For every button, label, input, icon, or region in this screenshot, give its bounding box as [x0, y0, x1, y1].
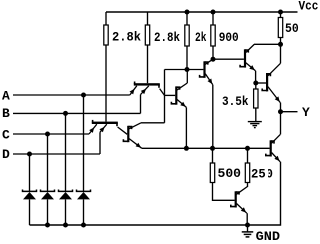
transistor Q2a: [171, 83, 187, 107]
node gnd junction C: [45, 223, 50, 228]
transistor Q3: [240, 44, 255, 70]
resistor R6 500: [210, 163, 214, 183]
svg-text:D: D: [2, 147, 10, 162]
node B junction: [63, 111, 68, 116]
wire Y output: [281, 111, 298, 113]
wire squaring line: [142, 147, 270, 149]
wire ground rail: [30, 224, 248, 226]
ground under 3.5k: [248, 122, 262, 128]
label R4 900: [219, 30, 239, 45]
wire R5 bottom lead: [280, 38, 282, 45]
wire Q5 base lead: [256, 82, 266, 84]
resistor R4 900: [211, 25, 215, 46]
wire B to diode D3: [65, 113, 67, 191]
label R7 250 left-edge clip: [266, 166, 268, 179]
node gnd junction A: [81, 223, 86, 228]
ground GND symbol: [242, 225, 254, 237]
node D junction: [27, 152, 32, 157]
label input D: [2, 147, 10, 162]
node X 2k junction: [185, 67, 190, 72]
wire input B: [13, 112, 141, 114]
wire C to diode D2: [47, 134, 49, 191]
node 900 junction: [211, 57, 216, 62]
wire Q3 collector to 50 node: [254, 43, 281, 45]
transistor Q5: [262, 63, 280, 102]
node A junction: [81, 93, 86, 98]
wire A to diode D4: [83, 95, 85, 191]
resistor R5 50: [278, 18, 282, 38]
label R6 500: [218, 166, 242, 181]
wire Q2a collector to 2k node: [186, 70, 188, 84]
svg-text:2.8k: 2.8k: [112, 30, 141, 45]
wire Q4 collector vertical: [280, 112, 282, 135]
svg-text:Vcc: Vcc: [299, 0, 319, 13]
resistor R7 250: [245, 163, 249, 183]
wire R6 top lead: [212, 148, 214, 163]
label GND: [256, 229, 281, 244]
node C junction: [45, 132, 50, 137]
diode D4 (input A clamp): [77, 190, 91, 226]
net label Vcc: [299, 0, 319, 13]
wire R3 bottom lead: [186, 46, 188, 70]
wire Q1a emitter 1 (A): [130, 86, 137, 95]
wire R8 bottom lead: [255, 108, 257, 121]
node Q3 emitter junction: [253, 81, 258, 86]
node squaring 250: [245, 146, 250, 151]
svg-text:3.5k: 3.5k: [222, 94, 249, 109]
node gnd junction output: [245, 223, 250, 228]
wire Q5 collector vertical: [280, 44, 282, 63]
wire Q6 emitter vertical: [246, 213, 248, 225]
wire input C: [13, 133, 89, 135]
wire Vcc rail: [106, 11, 298, 13]
wire Q2a base lead: [165, 94, 176, 96]
label R3 2k: [195, 30, 207, 45]
label R5 50: [285, 21, 299, 36]
wire Q1a emitter 2 (B): [141, 86, 149, 114]
wire R4 top lead: [212, 12, 214, 25]
label R1 2.8k: [112, 30, 141, 45]
svg-text:500: 500: [218, 166, 242, 181]
label Y: [302, 105, 310, 120]
svg-text:A: A: [2, 88, 10, 103]
svg-text:250: 250: [251, 166, 273, 181]
node Y junction: [278, 109, 283, 114]
label R8 3.5k: [222, 94, 249, 109]
wire node X vertical: [164, 70, 166, 123]
wire R5 top lead: [280, 12, 282, 18]
svg-text:Y: Y: [302, 105, 310, 120]
resistor R8 3.5k: [254, 89, 258, 108]
wire R1 bottom lead to Q1b base: [105, 45, 107, 122]
svg-text:50: 50: [285, 21, 299, 36]
node squaring Q2a emitter: [184, 146, 189, 151]
wire Q3 emitter vertical: [255, 71, 257, 83]
node 50 junction: [278, 42, 283, 47]
wire Q2m emitter vertical: [212, 85, 214, 149]
wire R2 bottom lead to Q1a base: [147, 45, 149, 83]
wire ground rail to Q4 emitter: [248, 162, 281, 225]
transistor Q1b multi-emitter: [92, 120, 118, 126]
node gnd junction B: [63, 223, 68, 228]
transistor Q1a multi-emitter: [134, 82, 160, 88]
diode D3 (input B clamp): [59, 190, 73, 226]
transistor Q4: [266, 134, 280, 161]
svg-text:B: B: [2, 106, 10, 121]
label R2 2.8k: [154, 30, 180, 45]
transistor Q2m: [200, 59, 213, 84]
wire R2 top lead: [147, 12, 149, 25]
wire Q5 emitter vertical: [280, 103, 282, 112]
svg-text:2k: 2k: [195, 30, 207, 45]
transistor Q6: [231, 187, 248, 214]
wire node X top line: [165, 69, 204, 71]
wire Q1b emitter 1 (C): [89, 124, 97, 134]
node Vcc junction at 900: [211, 10, 216, 15]
wire Q2a emitter vertical: [185, 107, 187, 148]
resistor R3 2k: [185, 25, 189, 46]
wire Q1a collector: [160, 89, 165, 96]
label R7 250: [251, 166, 273, 181]
node Vcc junction at 2k: [185, 10, 190, 15]
diode D2 (input C clamp): [41, 190, 55, 226]
transistor Q2b: [123, 123, 141, 149]
label input B: [2, 106, 10, 121]
svg-text:C: C: [2, 128, 10, 143]
node squaring 500: [210, 146, 215, 151]
diode D1 (input D clamp): [23, 190, 37, 226]
wire Q3 base lead: [213, 58, 244, 60]
node Vcc junction at 50: [278, 10, 283, 15]
wire D to diode D1: [29, 154, 31, 191]
wire input A: [13, 94, 130, 96]
svg-text:GND: GND: [256, 229, 281, 244]
svg-text:2.8k: 2.8k: [154, 30, 180, 45]
wire Q1b emitter 2 (D): [99, 124, 106, 154]
resistor R2 2.8k: [145, 25, 149, 45]
resistor R1 2.8k: [104, 25, 108, 45]
label input A: [2, 88, 10, 103]
wire node X bottom line: [141, 122, 165, 124]
wire input D: [13, 153, 100, 155]
wire Q1b collector to Q2b base: [118, 127, 128, 134]
label input C: [2, 128, 10, 143]
wire R1 top lead: [105, 12, 107, 25]
wire R4 bottom lead: [212, 46, 214, 59]
wire R3 top lead: [186, 12, 188, 25]
wire R7 bottom lead: [247, 183, 249, 188]
wire R7 top lead: [247, 148, 249, 163]
svg-text:900: 900: [219, 30, 239, 45]
wire R6 bottom to Q6 base: [213, 183, 235, 201]
wire R8 top lead: [255, 83, 257, 89]
